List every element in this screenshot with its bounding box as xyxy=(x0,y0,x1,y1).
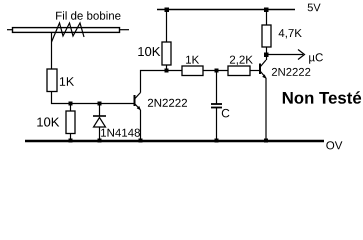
resistor R2 10K xyxy=(66,104,75,141)
node dot capacitor bottom on ground xyxy=(215,139,219,143)
wire R5 to Q2 base xyxy=(250,70,260,72)
coil L1 body (Fil de bobine) xyxy=(7,28,129,33)
resistor R4 1K horizontal xyxy=(182,66,203,76)
wire Q1 collector up and right to R4 xyxy=(141,71,183,93)
resistor R1 1K xyxy=(47,69,57,92)
diode D1 1N4148 xyxy=(93,104,106,141)
label Non Teste xyxy=(283,91,361,104)
label uC xyxy=(309,53,323,63)
wire Q1 emitter to ground xyxy=(140,110,142,140)
label Fil de bobine xyxy=(56,11,120,19)
wire output arrow to uC xyxy=(267,50,305,60)
wire Q2 emitter to ground xyxy=(265,78,267,140)
wire coil to R1 xyxy=(51,32,53,69)
node dot D1 bottom on ground xyxy=(98,139,102,143)
label Q1 2N2222 xyxy=(148,99,187,107)
node dot Q2 emitter on ground xyxy=(264,139,268,143)
resistor R5 2,2K horizontal xyxy=(228,66,250,76)
label R2 10K xyxy=(37,117,59,126)
node dot rail R3 xyxy=(165,8,170,13)
label 0V xyxy=(326,141,342,149)
resistor R3 10K pull-up xyxy=(162,10,171,71)
label D1 1N4148 xyxy=(101,129,140,137)
wire R4 to R5 xyxy=(203,70,228,72)
label R3 10K xyxy=(138,47,160,56)
resistor R6 4,7K xyxy=(262,10,271,61)
node dot R2 bottom on ground xyxy=(69,139,73,143)
label 5V xyxy=(308,4,321,12)
node dot R3 bottom xyxy=(165,69,169,73)
node dot capacitor top xyxy=(215,69,219,73)
label R4 1K xyxy=(186,56,199,64)
label C xyxy=(222,109,230,118)
coil winding zigzag xyxy=(52,23,85,42)
capacitor C xyxy=(211,71,222,141)
node dot D1 top xyxy=(98,102,102,106)
node dot Q1 emitter on ground xyxy=(139,139,143,143)
transistor Q2 2N2222 xyxy=(260,60,266,79)
label R5 2,2K xyxy=(230,56,253,66)
label R6 4,7K xyxy=(279,29,302,38)
ground rail 0V xyxy=(25,140,324,143)
transistor Q1 2N2222 xyxy=(135,93,141,111)
label Q2 2N2222 xyxy=(272,68,310,76)
5V power rail xyxy=(157,9,295,11)
wire R1 to node A xyxy=(52,92,135,104)
label R1 1K xyxy=(60,77,74,86)
node dot Q2 collector xyxy=(264,53,269,58)
node dot rail R6 xyxy=(264,8,269,13)
node A dot (R2 top) xyxy=(69,102,73,106)
